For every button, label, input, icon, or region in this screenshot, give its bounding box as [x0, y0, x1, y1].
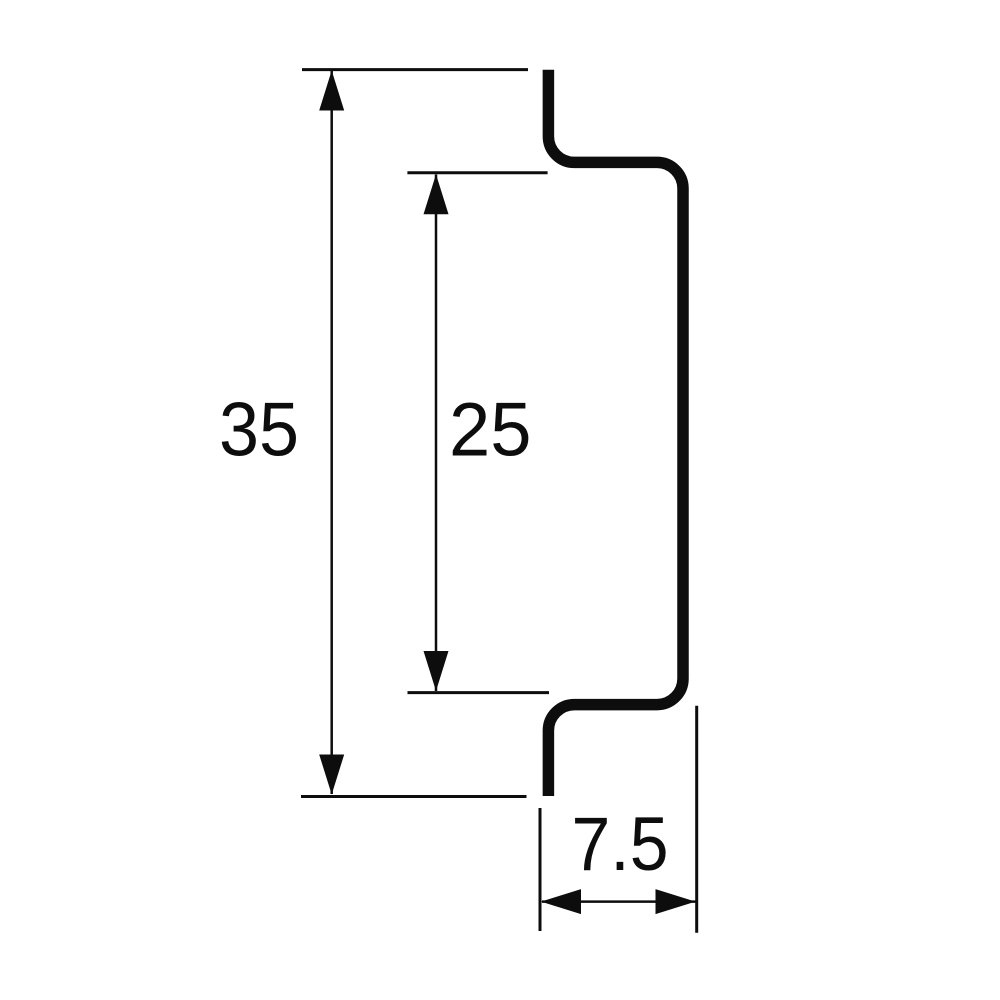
svg-text:35: 35 — [219, 388, 299, 473]
svg-text:25: 25 — [449, 388, 532, 473]
svg-text:7.5: 7.5 — [572, 802, 669, 887]
